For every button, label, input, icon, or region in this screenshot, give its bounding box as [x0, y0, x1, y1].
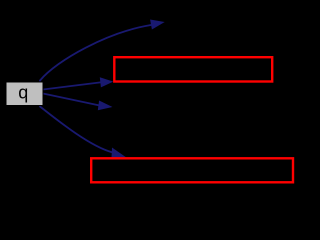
truncated node box 2 (red): [91, 158, 293, 182]
wire edge A: q to top-right target: [40, 25, 151, 81]
truncated node box 1 (red): [114, 57, 272, 81]
arrowhead edge D: [112, 148, 127, 158]
arrowhead edge B: [100, 77, 114, 87]
arrowhead edge A: [150, 20, 165, 30]
node q: [6, 82, 43, 106]
svg-text:q: q: [18, 83, 28, 103]
arrowhead edge C: [98, 101, 113, 111]
wire edge C: q to middle target: [43, 94, 99, 106]
wire edge D: q to red box 2: [40, 107, 112, 153]
wire edge B: q to red box 1: [43, 82, 100, 89]
